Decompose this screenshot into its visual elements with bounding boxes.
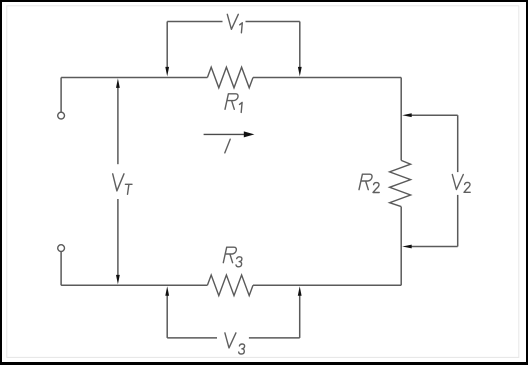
V2 measurement bracket wires [411, 115, 458, 246]
wire top left segment [61, 77, 207, 79]
label R2 [359, 174, 379, 192]
label I [225, 139, 230, 153]
label V2 [452, 175, 470, 193]
wire bottom right segment [253, 284, 401, 286]
label VT [113, 174, 132, 194]
wire left top terminal stub [60, 78, 62, 113]
label R1 [225, 94, 242, 113]
terminal top [58, 112, 65, 119]
label R3 [223, 247, 242, 267]
terminal bottom [58, 245, 65, 252]
wire left bottom terminal stub [60, 251, 62, 285]
label V3 [225, 333, 245, 354]
label V1 [227, 14, 242, 33]
wire bottom left segment [61, 284, 207, 286]
resistor R2 [390, 160, 411, 206]
wire top right segment [253, 77, 401, 79]
current arrow I shaft [204, 133, 245, 135]
V2 arrowhead top [402, 113, 412, 117]
current arrow I head [244, 131, 255, 137]
V3 arrowhead right [298, 286, 302, 296]
V3 measurement bracket wires [167, 295, 300, 338]
V3 arrowhead left [165, 286, 169, 296]
V1 arrowhead left [165, 67, 169, 77]
resistor R1 [207, 67, 253, 88]
wire right lower segment [400, 207, 402, 286]
VT arrowhead down [116, 275, 120, 285]
VT dimension line shafts [117, 87, 119, 275]
V1 arrowhead right [298, 67, 302, 77]
V2 arrowhead bottom [402, 245, 412, 249]
wire right upper segment [400, 78, 402, 161]
V1 measurement bracket wires [167, 22, 300, 69]
resistor R3 [207, 275, 253, 296]
VT arrowhead up [116, 78, 120, 88]
